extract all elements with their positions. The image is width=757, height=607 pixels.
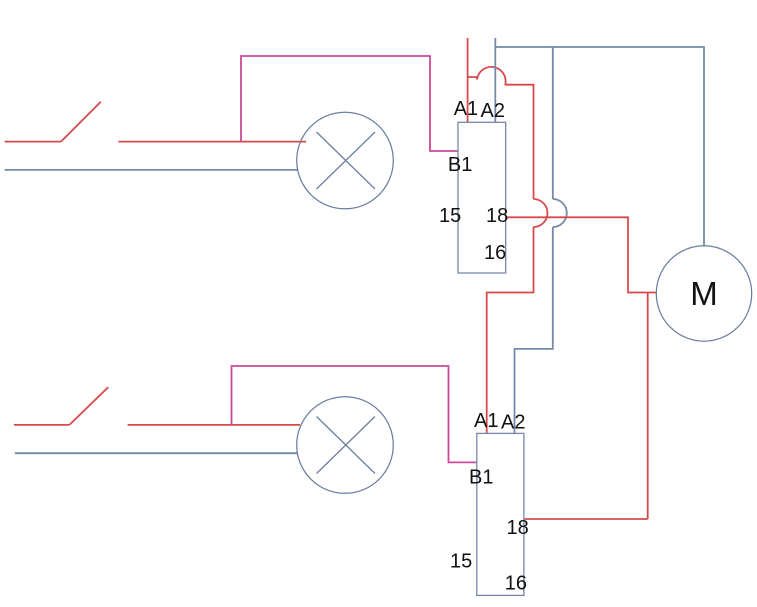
lamp H2 circle [297, 397, 394, 494]
red feeder down to relay K2 pin A1 [487, 227, 534, 433]
motor M1 circle [656, 246, 751, 341]
wire neutral to lamp H1 (blue) [5, 169, 298, 171]
hop of red wire over blue A2 wire [477, 67, 506, 83]
wire neutral to lamp H2 (blue) [15, 452, 297, 454]
svg-text:A1: A1 [474, 410, 498, 432]
svg-text:A2: A2 [501, 412, 525, 434]
svg-text:B1: B1 [448, 154, 472, 176]
relay K1 body [458, 122, 506, 273]
red feeder hop over K1 pin-18 wire [534, 199, 548, 227]
wire branch nub from A1 line [468, 77, 477, 80]
blue feeder hop over K1 pin-18 wire [553, 199, 567, 227]
svg-text:15: 15 [450, 551, 472, 573]
wire S1 to lamp H1 (red) [118, 141, 306, 143]
svg-text:18: 18 [486, 205, 508, 227]
svg-text:18: 18 [507, 517, 529, 539]
lamp H1 circle [297, 112, 394, 209]
svg-text:A2: A2 [481, 100, 505, 122]
blue top rail to motor [495, 47, 704, 247]
lamp H1 cross [317, 132, 376, 189]
switch S2 blade [69, 387, 108, 425]
red wire from hop to vertical feeder [506, 83, 534, 199]
svg-text:16: 16 [505, 573, 527, 595]
relay K2 body [477, 433, 524, 595]
svg-text:16: 16 [484, 242, 506, 264]
blue feeder down to relay K2 pin A2 [515, 227, 553, 433]
switch S1 left lead wire [5, 141, 61, 143]
switch S2 left lead wire [14, 424, 70, 426]
svg-text:15: 15 [439, 205, 461, 227]
wire S2 to lamp H2 (red) [128, 424, 300, 426]
wire L+ supply to K1 pin A1 (red vertical) [467, 38, 469, 122]
wire magenta S1 branch to relay K1 pin B1 [241, 56, 458, 151]
wire K2 pin 18 (red horizontal) [524, 518, 647, 520]
svg-text:M: M [690, 275, 718, 312]
blue feeder to K2 pin A2 upper part [552, 47, 554, 199]
wire magenta S2 branch to relay K2 pin B1 [232, 366, 477, 462]
svg-text:B1: B1 [469, 467, 493, 489]
wire K1 pin 18 to motor (red) [506, 217, 657, 292]
wire N supply to K1 pin A2 (blue vertical) [494, 38, 496, 122]
red branch from motor node down to K2 pin 18 [647, 293, 649, 520]
lamp H2 cross [317, 417, 376, 474]
svg-text:A1: A1 [454, 98, 478, 120]
switch S1 blade [61, 102, 101, 142]
